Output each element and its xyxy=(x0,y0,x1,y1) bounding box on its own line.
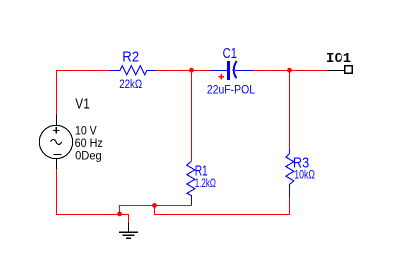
source V1 xyxy=(39,115,72,170)
svg-text:10 V: 10 V xyxy=(75,125,97,138)
svg-text:R1: R1 xyxy=(195,162,208,180)
connector I01 xyxy=(328,66,353,73)
junction node D xyxy=(152,203,157,208)
wire node C to ground stub xyxy=(120,215,129,224)
wire node A down to R1 xyxy=(191,71,193,162)
resistor R2 xyxy=(110,66,156,75)
svg-text:60 Hz: 60 Hz xyxy=(75,137,103,150)
resistor R1 xyxy=(187,161,195,206)
wire node C step up to R1 bottom xyxy=(120,206,192,215)
svg-text:22uF-POL: 22uF-POL xyxy=(207,84,255,97)
wire node B to connector xyxy=(290,70,328,72)
wire R2 to node A xyxy=(156,70,192,72)
wire node D to R3 bottom xyxy=(155,198,290,215)
wire node B down to R3 xyxy=(289,71,291,150)
capacitor C1 xyxy=(210,61,253,80)
svg-text:1.2kΩ: 1.2kΩ xyxy=(195,178,216,191)
junction node A xyxy=(189,68,194,73)
wire V1 bottom to node C xyxy=(57,169,120,215)
svg-text:R2: R2 xyxy=(122,48,139,65)
wire C1 to node B xyxy=(253,70,290,72)
resistor R3 xyxy=(286,150,294,198)
ground xyxy=(119,223,138,238)
wire node A to C1 xyxy=(192,70,211,72)
svg-text:0Deg: 0Deg xyxy=(75,150,102,162)
svg-text:V1: V1 xyxy=(75,95,89,112)
svg-text:22kΩ: 22kΩ xyxy=(119,78,142,91)
junction node C xyxy=(117,212,122,217)
polarity plus of C1 xyxy=(219,74,224,79)
svg-text:C1: C1 xyxy=(223,44,237,61)
junction node B xyxy=(287,68,292,73)
svg-text:10kΩ: 10kΩ xyxy=(294,168,315,182)
wire V1 top to R2 xyxy=(57,71,111,115)
